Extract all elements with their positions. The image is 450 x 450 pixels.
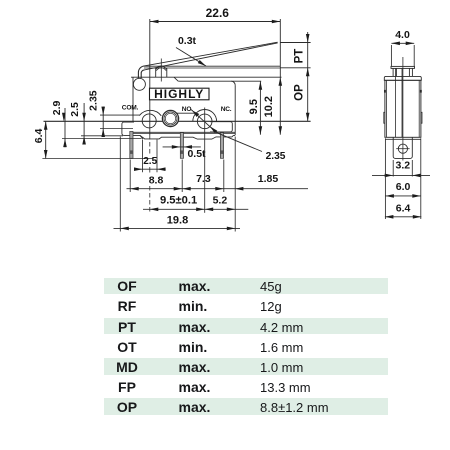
side view body outline: [385, 80, 421, 137]
NO terminal hump arc: [193, 110, 217, 122]
NC pin: [220, 133, 223, 159]
body shoulder line y=115.1 with left extension: [100, 114, 140, 116]
tangent line between humps: [177, 112, 196, 114]
lever operating position bottom line: [144, 67, 280, 69]
lever hinge curl: [138, 66, 144, 78]
dim 0.5t line: [163, 146, 201, 148]
NO rivet circle: [197, 114, 212, 129]
dim 6.4 left line: [45, 121, 47, 158]
svg-text:2.35: 2.35: [266, 151, 286, 162]
side view top flange: [384, 76, 421, 80]
body bottom contour: [140, 135, 235, 139]
lever free position upper line: [144, 42, 278, 66]
extension line x=280.3 (lever tip / 10.2 dim line): [279, 19, 281, 135]
svg-text:NC.: NC.: [221, 106, 232, 113]
svg-text:6.4: 6.4: [33, 128, 45, 143]
COM tab outline: [122, 122, 143, 139]
left ext line y=137.2: [62, 138, 142, 140]
plunger dome outer: [156, 66, 167, 69]
0.3t leader arrowhead: [198, 60, 206, 66]
dim 10.2 arrows: [279, 77, 283, 86]
svg-text:4.0: 4.0: [395, 29, 410, 41]
side view interior lever lines: [394, 68, 396, 137]
free position reference line: [280, 42, 310, 44]
svg-text:6.0: 6.0: [396, 181, 411, 193]
table row OF: [104, 278, 388, 294]
ext line NO rivet x=204.7: [204, 108, 206, 213]
side view dim 6.0 line: [385, 195, 420, 197]
svg-text:8.8: 8.8: [149, 174, 164, 186]
NO pin: [180, 133, 183, 159]
body top step bevel: [174, 77, 178, 81]
dim 2.5 bottom ext lines: [142, 140, 144, 173]
svg-text:2.5: 2.5: [69, 102, 81, 117]
lever operating position top line: [144, 65, 280, 67]
dim 9.5 line: [259, 81, 261, 135]
body right edge extension down to 19.8 dim: [234, 137, 236, 232]
COM rivet circle: [142, 114, 156, 128]
extension line x=150 (hinge centerline): [149, 19, 151, 135]
svg-text:COM.: COM.: [122, 104, 139, 111]
ext line NO pin x=182.2: [181, 160, 183, 193]
side view tab hole circle: [398, 144, 407, 153]
COM pin: [130, 131, 133, 158]
side view lever neck lines: [392, 68, 394, 76]
svg-text:22.6: 22.6: [206, 6, 230, 20]
table row FP: [104, 378, 388, 394]
NC terminal plate: [210, 122, 232, 132]
body top-right rounded corner: [231, 81, 235, 85]
side view dim 6.4 line: [385, 216, 421, 218]
svg-text:2.9: 2.9: [51, 100, 63, 115]
svg-text:OP: OP: [293, 84, 305, 101]
svg-text:0.3t: 0.3t: [178, 35, 197, 47]
side view dim 6.0 ext lines: [384, 138, 386, 219]
dim 2.5 left line: [83, 103, 85, 144]
0.3t leader line: [176, 48, 206, 67]
2.35 leader polyline: [191, 109, 262, 151]
left ext line y=139.3: [81, 135, 123, 137]
table row OT: [104, 338, 388, 354]
ext line NC pin right x=223.8: [223, 160, 225, 193]
svg-text:HIGHLY: HIGHLY: [154, 87, 204, 101]
svg-text:10.2: 10.2: [263, 96, 275, 117]
plunger centerline: [160, 59, 162, 82]
dim 22.6 line: [150, 21, 280, 23]
svg-text:0.5t: 0.5t: [187, 148, 206, 160]
datum line y=121.3 through terminals: [44, 120, 311, 122]
svg-text:1.85: 1.85: [258, 173, 279, 185]
side view dim 4.0 line: [391, 42, 414, 44]
HIGHLY label box: [150, 88, 210, 100]
side view dim 3.2 line: [372, 174, 430, 176]
pin bottom extension line: [42, 158, 152, 160]
bottom dim row3 line: [114, 227, 241, 229]
body base double line lower: [133, 132, 235, 134]
ext line 19.8 left x=120.3: [119, 137, 121, 232]
side view body inner left line: [386, 80, 388, 137]
side view 4.0 ext lines: [390, 45, 392, 66]
side view tab hole crosshair: [396, 148, 409, 150]
side view body inner right line: [418, 80, 420, 137]
svg-text:9.5: 9.5: [248, 99, 260, 114]
body top-left edge line y=77.15 with right extension: [131, 76, 282, 78]
lever free position lower line: [144, 43, 278, 70]
side view dim 3.2 ext lines: [392, 160, 394, 177]
COM terminal hump arc: [139, 110, 161, 115]
side view right recess: [421, 112, 422, 123]
bottom dim row1 line: [127, 188, 309, 190]
svg-text:3.2: 3.2: [395, 160, 410, 172]
bottom dim row2 line: [143, 208, 248, 210]
plunger button outer ring: [162, 110, 179, 127]
ext line COM pin x=130.2: [129, 160, 131, 193]
svg-text:2.5: 2.5: [143, 156, 157, 167]
2.35 leader upper arrowhead: [192, 111, 199, 118]
table row OP: [104, 398, 388, 414]
plunger right side: [166, 68, 168, 77]
svg-text:PT: PT: [293, 49, 305, 64]
hinge centerline dashed lower part: [149, 135, 151, 154]
side view left notch: [384, 90, 386, 93]
plunger dome inner: [156, 68, 166, 71]
svg-text:5.2: 5.2: [213, 195, 228, 207]
hinge pin circle: [133, 78, 145, 90]
left ext line y=128.5: [100, 128, 133, 130]
svg-text:19.8: 19.8: [167, 214, 188, 226]
dim 2.5 bottom line: [134, 168, 166, 170]
svg-text:6.4: 6.4: [396, 202, 411, 214]
body top-right edge y=81.2 with right extension: [178, 80, 261, 82]
table row PT: [104, 318, 388, 334]
side view body bottom inner line: [385, 138, 420, 140]
table row RF: [104, 298, 388, 314]
svg-text:2.35: 2.35: [88, 90, 100, 111]
side view centerline: [402, 57, 404, 161]
plunger left side: [155, 68, 157, 77]
2.35 leader arrowhead: [210, 126, 218, 133]
side view lever cap bar: [391, 66, 415, 68]
table row MD: [104, 358, 388, 374]
side view left recess: [384, 112, 385, 123]
side view right notch: [420, 90, 422, 93]
svg-text:7.3: 7.3: [196, 173, 211, 185]
body base double line upper: [133, 131, 235, 133]
operating position reference line: [280, 67, 310, 69]
svg-text:9.5±0.1: 9.5±0.1: [160, 195, 197, 207]
dim 2.35 left line: [102, 107, 104, 137]
PT/OP dimension line: [307, 32, 309, 121]
dim 2.9 line: [64, 108, 66, 147]
body right edge: [234, 85, 236, 135]
side view terminal tab: [393, 137, 412, 158]
body left edge: [132, 77, 134, 122]
